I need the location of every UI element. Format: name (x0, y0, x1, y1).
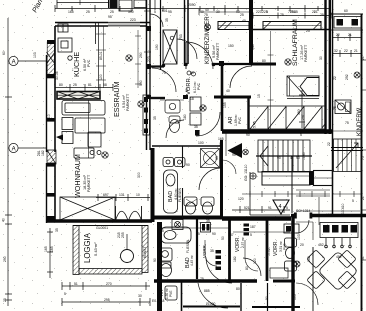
svg-text:180: 180 (233, 256, 237, 262)
svg-text:21000: 21000 (206, 302, 216, 306)
svg-text:180: 180 (183, 114, 187, 120)
svg-text:5: 5 (352, 199, 354, 203)
svg-text:165: 165 (50, 246, 54, 252)
svg-text:162: 162 (307, 256, 311, 262)
svg-text:13.410: 13.410 (341, 204, 345, 214)
svg-text:40: 40 (242, 19, 246, 23)
svg-text:20: 20 (300, 243, 304, 247)
svg-text:21: 21 (361, 196, 365, 200)
svg-text:292: 292 (345, 74, 349, 80)
svg-text:22: 22 (327, 142, 331, 146)
svg-text:25: 25 (73, 83, 77, 87)
svg-text:4: 4 (279, 204, 282, 210)
svg-text:90: 90 (246, 133, 250, 137)
svg-text:30: 30 (138, 294, 142, 298)
svg-text:103: 103 (297, 234, 301, 240)
svg-text:452: 452 (336, 255, 342, 259)
svg-text:5: 5 (266, 10, 268, 14)
svg-text:-0.02: -0.02 (267, 248, 271, 256)
svg-text:90: 90 (153, 258, 157, 262)
svg-text:165: 165 (68, 10, 74, 14)
svg-text:105: 105 (293, 294, 297, 300)
svg-text:1975: 1975 (326, 213, 334, 217)
svg-text:35: 35 (55, 228, 59, 232)
svg-text:753: 753 (179, 34, 183, 40)
svg-text:22: 22 (333, 76, 337, 80)
svg-text:25: 25 (3, 298, 7, 302)
svg-text:35: 35 (210, 249, 214, 253)
svg-text:885: 885 (204, 289, 210, 293)
svg-text:51: 51 (361, 256, 365, 260)
svg-text:452: 452 (318, 243, 324, 247)
svg-text:A: A (12, 146, 16, 152)
svg-text:90: 90 (296, 156, 300, 160)
svg-text:255: 255 (121, 232, 125, 238)
svg-text:25: 25 (110, 10, 114, 14)
svg-text:-1.80: -1.80 (302, 152, 306, 160)
svg-text:35: 35 (153, 116, 157, 120)
svg-text:5.45: 5.45 (253, 121, 257, 128)
svg-text:80: 80 (262, 59, 266, 63)
svg-text:40: 40 (205, 8, 209, 12)
svg-text:60: 60 (344, 9, 348, 13)
svg-text:PARKETT: PARKETT (304, 44, 308, 62)
svg-text:223: 223 (147, 56, 151, 62)
svg-text:5: 5 (64, 292, 66, 296)
svg-text:223: 223 (130, 18, 136, 22)
svg-text:120: 120 (238, 197, 244, 201)
svg-text:35: 35 (215, 156, 219, 160)
svg-text:95: 95 (108, 15, 112, 19)
svg-text:80: 80 (245, 266, 249, 270)
svg-text:PARKETT: PARKETT (126, 93, 130, 111)
svg-text:155: 155 (223, 102, 227, 108)
svg-text:90: 90 (232, 153, 236, 157)
svg-text:5: 5 (286, 206, 288, 210)
svg-text:21: 21 (354, 49, 358, 53)
svg-text:21: 21 (348, 33, 352, 37)
svg-text:390: 390 (297, 109, 301, 115)
svg-text:90: 90 (212, 232, 216, 236)
svg-text:25: 25 (86, 10, 90, 14)
svg-text:545: 545 (251, 44, 255, 50)
svg-text:TV+SAT: TV+SAT (151, 169, 155, 182)
svg-text:50: 50 (221, 236, 225, 240)
svg-text:131: 131 (119, 193, 125, 197)
svg-text:81: 81 (88, 83, 92, 87)
svg-text:PVC: PVC (169, 290, 173, 297)
svg-text:75: 75 (345, 121, 349, 125)
svg-text:SO+1314: SO+1314 (296, 209, 311, 213)
svg-text:35: 35 (160, 229, 164, 233)
svg-text:PVC: PVC (238, 116, 242, 124)
svg-text:LOGGIA: LOGGIA (83, 232, 92, 263)
svg-text:2.37 m²: 2.37 m² (241, 237, 245, 248)
svg-text:GO: 13110: GO: 13110 (244, 165, 248, 181)
svg-text:187: 187 (228, 233, 234, 237)
svg-text:KINDERZIMMER: KINDERZIMMER (204, 16, 211, 64)
svg-text:40: 40 (226, 89, 230, 93)
svg-text:91: 91 (268, 206, 272, 210)
svg-text:4: 4 (290, 156, 292, 160)
svg-text:297: 297 (301, 114, 305, 120)
svg-text:10: 10 (136, 193, 140, 197)
svg-text:PVC: PVC (87, 59, 91, 67)
svg-text:35: 35 (165, 18, 169, 22)
svg-text:75: 75 (333, 106, 337, 110)
svg-text:270: 270 (106, 282, 112, 286)
svg-text:90: 90 (185, 88, 189, 92)
svg-text:KÜCHE: KÜCHE (72, 52, 81, 77)
svg-text:190: 190 (155, 44, 159, 50)
svg-text:75: 75 (361, 156, 365, 160)
svg-text:25: 25 (306, 29, 310, 33)
svg-text:35: 35 (194, 125, 198, 129)
svg-text:753: 753 (288, 10, 294, 14)
svg-text:300: 300 (137, 172, 141, 178)
svg-text:75: 75 (200, 277, 204, 281)
svg-text:697: 697 (103, 193, 109, 197)
svg-text:601: 601 (162, 9, 168, 13)
svg-text:5: 5 (154, 10, 156, 14)
svg-text:80: 80 (59, 83, 63, 87)
svg-text:35: 35 (206, 219, 210, 223)
svg-text:21: 21 (314, 10, 318, 14)
svg-text:51: 51 (74, 282, 78, 286)
svg-text:A: A (12, 59, 16, 65)
svg-text:100: 100 (198, 141, 204, 145)
svg-text:PVC: PVC (283, 243, 287, 250)
svg-text:521: 521 (244, 206, 250, 210)
svg-text:75: 75 (204, 13, 208, 17)
svg-text:FLIESEN: FLIESEN (178, 187, 182, 202)
svg-text:21: 21 (361, 56, 365, 60)
svg-text:90: 90 (219, 142, 223, 146)
svg-text:90: 90 (277, 156, 281, 160)
svg-text:165: 165 (218, 137, 224, 141)
svg-text:95: 95 (168, 10, 172, 14)
svg-text:590: 590 (139, 80, 143, 86)
svg-text:290: 290 (139, 52, 143, 58)
svg-text:5: 5 (300, 133, 302, 137)
svg-text:KUNST: KUNST (143, 247, 147, 259)
svg-text:90: 90 (265, 296, 269, 300)
svg-text:4.45 m²: 4.45 m² (190, 255, 194, 266)
svg-text:295: 295 (104, 298, 110, 302)
svg-text:PARKETT: PARKETT (216, 42, 220, 60)
svg-text:58: 58 (103, 83, 107, 87)
svg-text:5.43 m²: 5.43 m² (93, 242, 98, 256)
svg-text:210: 210 (47, 114, 51, 120)
svg-text:15: 15 (257, 94, 261, 98)
svg-text:150: 150 (228, 44, 234, 48)
svg-text:187: 187 (250, 225, 256, 229)
svg-text:22: 22 (336, 33, 340, 37)
svg-text:40: 40 (2, 218, 6, 222)
svg-text:60: 60 (2, 51, 6, 55)
svg-text:25: 25 (320, 13, 324, 17)
svg-text:120: 120 (253, 258, 257, 264)
svg-text:PVC: PVC (197, 82, 201, 90)
svg-text:KINDERW.: KINDERW. (357, 106, 363, 136)
svg-text:131: 131 (96, 219, 102, 223)
svg-text:75: 75 (280, 13, 284, 17)
svg-text:100: 100 (99, 74, 103, 80)
svg-text:103: 103 (33, 52, 37, 58)
svg-text:22: 22 (344, 49, 348, 53)
svg-text:80: 80 (236, 287, 240, 291)
svg-text:165: 165 (44, 246, 48, 252)
svg-text:25: 25 (240, 13, 244, 17)
svg-text:PARKETT: PARKETT (87, 174, 91, 192)
svg-text:GL0001: GL0001 (96, 226, 108, 230)
svg-text:E0.0118: E0.0118 (152, 299, 164, 303)
svg-text:18: 18 (190, 97, 194, 101)
svg-text:32: 32 (334, 49, 338, 53)
svg-text:2090: 2090 (188, 3, 196, 7)
svg-text:290: 290 (3, 256, 7, 262)
svg-text:30: 30 (319, 56, 323, 60)
svg-text:5: 5 (250, 233, 252, 237)
svg-text:80: 80 (190, 71, 194, 75)
svg-text:SCHLAFRAUM: SCHLAFRAUM (292, 19, 299, 66)
svg-text:75: 75 (162, 71, 166, 75)
svg-text:WOHNRAUM: WOHNRAUM (73, 154, 82, 198)
svg-text:AR: AR (159, 289, 164, 296)
svg-text:85.01: 85.01 (99, 51, 103, 60)
svg-text:ESSRAUM: ESSRAUM (112, 81, 121, 117)
svg-text:182: 182 (41, 150, 45, 156)
svg-text:30: 30 (216, 10, 220, 14)
svg-text:FLIESEN: FLIESEN (186, 239, 190, 253)
svg-text:45: 45 (294, 10, 298, 14)
svg-text:35: 35 (196, 232, 200, 236)
svg-text:590: 590 (128, 10, 134, 14)
svg-text:90: 90 (186, 163, 190, 167)
svg-text:30.08: 30.08 (55, 71, 59, 80)
svg-text:223: 223 (256, 10, 262, 14)
svg-text:VORR.: VORR. (202, 244, 207, 258)
